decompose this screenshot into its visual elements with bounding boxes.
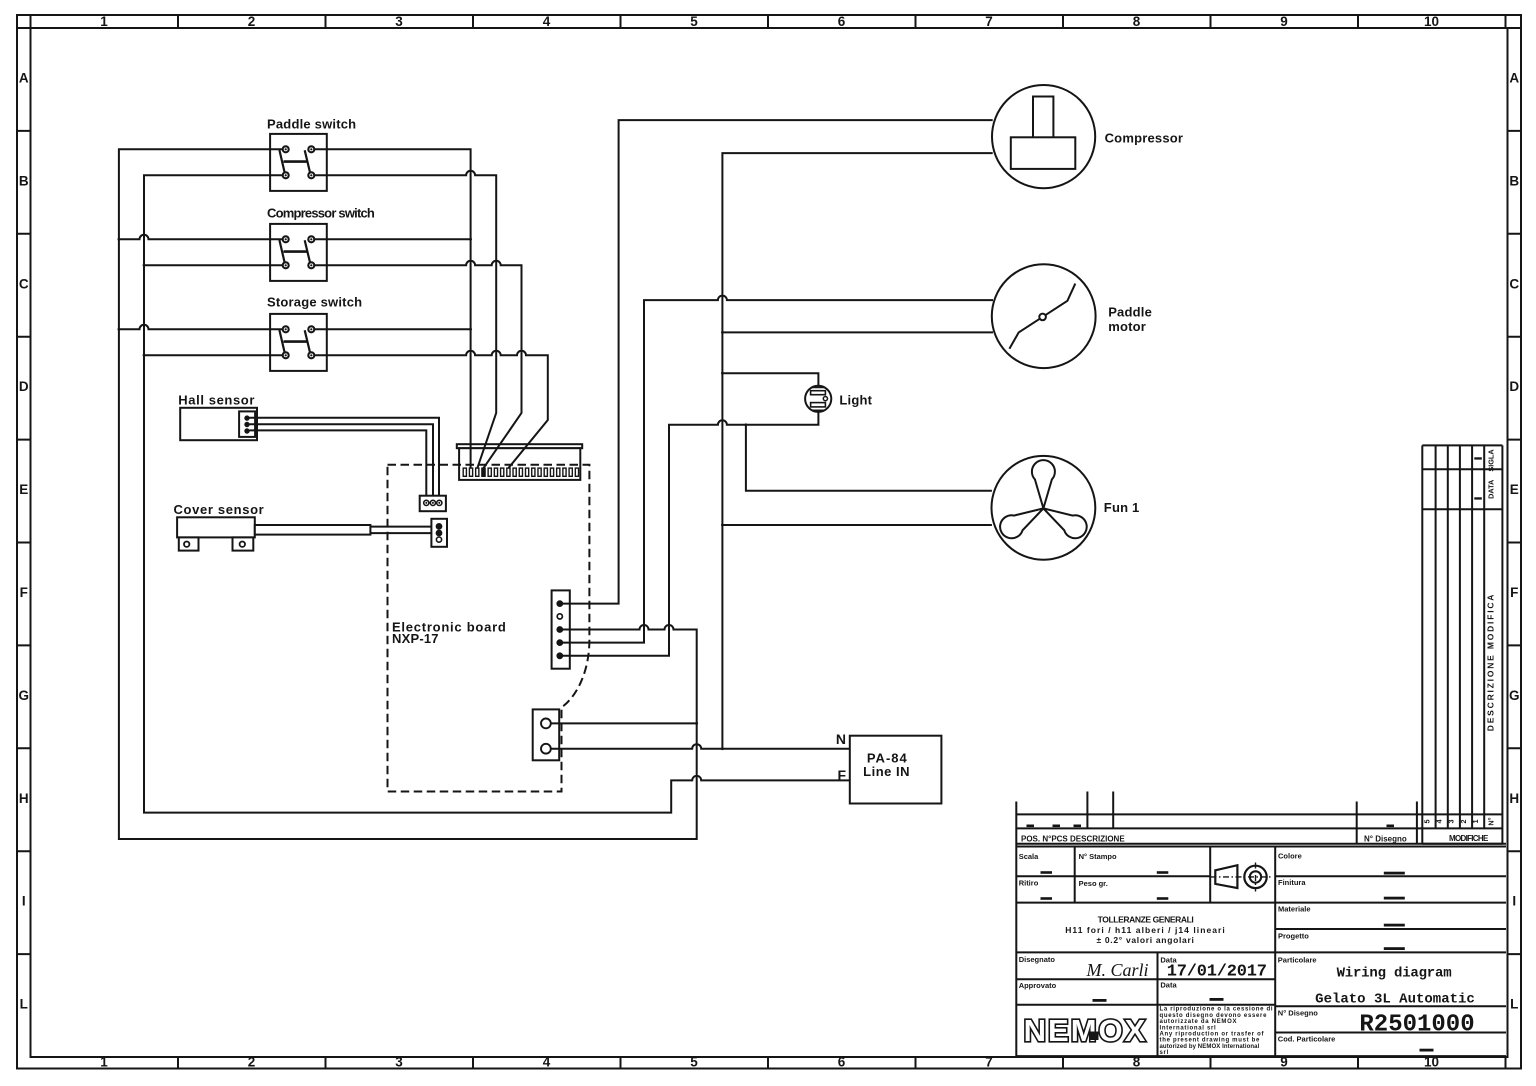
svg-text:H: H	[19, 791, 29, 806]
wire: 2-pin connector top to L bus	[551, 722, 697, 724]
hall sensor B1	[180, 408, 257, 440]
svg-text:MODIFICHE: MODIFICHE	[1449, 834, 1489, 843]
svg-text:Gelato 3L Automatic: Gelato 3L Automatic	[1315, 992, 1475, 1008]
svg-text:Light: Light	[839, 392, 872, 407]
svg-text:9: 9	[1280, 14, 1288, 29]
wire: 6-pin connector pin5 to light bottom	[560, 412, 818, 656]
svg-text:Ritiro: Ritiro	[1019, 879, 1039, 888]
wire: compressor switch top right	[311, 238, 470, 240]
svg-text:17/01/2017: 17/01/2017	[1167, 963, 1267, 982]
wire: paddle switch top right to terminal pin 2	[311, 149, 470, 468]
svg-text:Compressor switch: Compressor switch	[267, 206, 375, 221]
compressor motor M1	[992, 85, 1095, 188]
svg-text:8: 8	[1133, 14, 1141, 29]
svg-text:srl: srl	[1160, 1050, 1169, 1056]
terminal strip X3	[457, 444, 582, 480]
wire: fan top feed	[746, 425, 992, 491]
svg-text:7: 7	[985, 1055, 993, 1070]
svg-text:N° Disegno: N° Disegno	[1364, 834, 1407, 843]
svg-text:M. Carli: M. Carli	[1085, 960, 1148, 980]
wire: fan bottom	[722, 524, 992, 526]
wire: paddle motor bottom	[722, 331, 993, 333]
svg-text:2: 2	[1459, 819, 1468, 823]
svg-text:autorizzate da NEMOX: autorizzate da NEMOX	[1160, 1019, 1238, 1025]
svg-text:I: I	[22, 894, 26, 909]
svg-text:the present drawing must be: the present drawing must be	[1160, 1038, 1261, 1044]
svg-text:D: D	[19, 379, 29, 394]
svg-text:Particolare: Particolare	[1278, 955, 1317, 964]
svg-text:Colore: Colore	[1278, 852, 1302, 861]
svg-text:Cover sensor: Cover sensor	[174, 502, 265, 517]
svg-text:6: 6	[838, 1055, 846, 1070]
svg-text:C: C	[1509, 276, 1519, 291]
svg-text:3: 3	[395, 14, 403, 29]
wire: storage switch bottom right to terminal pin 8	[311, 351, 548, 468]
svg-text:5: 5	[1422, 819, 1431, 823]
fan FUN1	[992, 456, 1096, 560]
svg-text:G: G	[19, 688, 30, 703]
TITLEBLOCK	[1016, 445, 1506, 1056]
svg-text:F: F	[838, 767, 847, 783]
svg-text:4: 4	[543, 14, 551, 29]
light lamp E1	[805, 386, 831, 412]
svg-text:Line IN: Line IN	[863, 764, 910, 779]
wire: net L bus - paddle switch top / compressor top / storage top to board pin row and 6-pin connector pin 3	[119, 149, 697, 839]
svg-text:Approvato: Approvato	[1019, 981, 1057, 990]
svg-text:Wiring diagram: Wiring diagram	[1337, 965, 1452, 981]
svg-text:NXP-17: NXP-17	[392, 631, 439, 646]
svg-text:N° Disegno: N° Disegno	[1278, 1009, 1319, 1018]
terminal strip pins	[463, 468, 578, 476]
wire: storage switch top right	[311, 328, 470, 330]
svg-text:Any riproduction or trasfer of: Any riproduction or trasfer of	[1160, 1032, 1265, 1038]
cover connector X2	[431, 519, 447, 547]
wire: 6-pin connector pin4 to paddle motor top	[560, 296, 993, 643]
wire: compressor switch top left	[119, 235, 286, 239]
svg-text:Hall sensor: Hall sensor	[178, 392, 255, 407]
svg-text:Progetto: Progetto	[1278, 931, 1309, 940]
svg-text:Paddle: Paddle	[1108, 305, 1152, 320]
svg-text:NEMOX: NEMOX	[1024, 1013, 1148, 1048]
svg-text:F: F	[1510, 585, 1518, 600]
svg-text:E: E	[19, 482, 28, 497]
svg-text:3: 3	[1447, 819, 1456, 823]
svg-text:5: 5	[690, 14, 698, 29]
wire: storage switch top left	[119, 325, 286, 330]
svg-text:1: 1	[100, 1055, 108, 1070]
electronic board NXP-17 dashed outline	[388, 465, 590, 792]
svg-text:1: 1	[1471, 819, 1480, 823]
svg-text:N°: N°	[1487, 817, 1496, 825]
wire: light top feed	[722, 373, 818, 386]
wire: hall sensor pin2 to connector X1	[250, 424, 434, 501]
svg-text:B: B	[19, 173, 29, 188]
svg-text:Storage switch: Storage switch	[267, 295, 362, 310]
svg-text:International srl: International srl	[1160, 1025, 1217, 1031]
wire: net N bus - paddle switch bottom to F terminal of PA-84	[144, 175, 850, 812]
svg-text:B: B	[1509, 173, 1519, 188]
wire: cover sensor leads to connector X2	[370, 527, 436, 534]
storage switch S3	[270, 314, 327, 371]
PA-84 line in module	[850, 736, 942, 804]
wire: 6-pin connector pin1 to compressor motor top	[560, 120, 993, 603]
svg-text:Peso gr.: Peso gr.	[1079, 879, 1108, 888]
svg-text:1: 1	[100, 14, 108, 29]
svg-text:H: H	[1509, 791, 1519, 806]
svg-text:Paddle switch: Paddle switch	[267, 117, 356, 132]
svg-text:5: 5	[690, 1055, 698, 1070]
svg-text:Fun 1: Fun 1	[1104, 500, 1140, 515]
paddle switch S1	[270, 134, 327, 191]
svg-text:Materiale: Materiale	[1278, 904, 1311, 913]
svg-text:Data: Data	[1160, 981, 1177, 990]
svg-text:G: G	[1509, 688, 1520, 703]
wire: storage switch bottom left	[144, 354, 286, 356]
svg-text:La riproduzione o la cessione: La riproduzione o la cessione di	[1160, 1007, 1274, 1013]
svg-text:H11 fori / h11 alberi / j14 li: H11 fori / h11 alberi / j14 lineari	[1065, 925, 1226, 935]
paddle motor M2	[992, 264, 1096, 368]
svg-text:6: 6	[838, 14, 846, 29]
svg-text:Finitura: Finitura	[1278, 878, 1306, 887]
svg-text:C: C	[19, 276, 29, 291]
svg-text:POS. N°PCS DESCRIZIONE: POS. N°PCS DESCRIZIONE	[1021, 834, 1125, 843]
svg-text:DESCRIZIONE MODIFICA: DESCRIZIONE MODIFICA	[1486, 593, 1496, 731]
svg-text:L: L	[1510, 997, 1518, 1012]
compressor switch S2	[270, 224, 327, 281]
svg-text:questo disegno devono essere: questo disegno devono essere	[1160, 1013, 1268, 1019]
svg-text:N: N	[836, 731, 846, 747]
wire: compressor switch bottom right to terminal pin 4	[311, 261, 521, 468]
svg-text:E: E	[1510, 482, 1519, 497]
junction dots	[118, 238, 748, 750]
svg-text:TOLLERANZE GENERALI: TOLLERANZE GENERALI	[1098, 915, 1194, 925]
svg-text:A: A	[1509, 71, 1519, 86]
wire: paddle switch bottom right to terminal pin 3	[311, 171, 496, 468]
cover sensor B2	[177, 517, 370, 550]
svg-text:N° Stampo: N° Stampo	[1079, 852, 1117, 861]
svg-text:4: 4	[543, 1055, 551, 1070]
svg-text:A: A	[19, 71, 29, 86]
svg-text:motor: motor	[1108, 319, 1146, 334]
svg-text:10: 10	[1424, 14, 1439, 29]
2-pin board connector X5	[533, 709, 560, 760]
svg-text:± 0.2° valori angolari: ± 0.2° valori angolari	[1096, 935, 1194, 945]
svg-text:I: I	[1512, 894, 1516, 909]
svg-text:Scala: Scala	[1019, 852, 1039, 861]
hall connector X1	[420, 496, 446, 512]
wire: hall sensor pin1 to connector X1	[250, 418, 440, 501]
wire: compressor switch bottom left	[144, 264, 286, 266]
6-pin board connector X4	[552, 590, 570, 668]
svg-text:3: 3	[395, 1055, 403, 1070]
svg-text:7: 7	[985, 14, 993, 29]
svg-text:D: D	[1509, 379, 1519, 394]
svg-text:R2501000: R2501000	[1359, 1011, 1474, 1038]
svg-text:DATA: DATA	[1487, 479, 1496, 499]
svg-text:Compressor: Compressor	[1105, 131, 1184, 146]
wire: compressor motor bottom to N line	[722, 153, 992, 749]
svg-text:Cod. Particolare: Cod. Particolare	[1278, 1035, 1336, 1044]
svg-text:L: L	[20, 997, 28, 1012]
wire: 2-pin connector bottom to N terminal of PA-84	[551, 744, 850, 749]
svg-text:2: 2	[248, 1055, 256, 1070]
svg-text:Disegnato: Disegnato	[1019, 955, 1056, 964]
svg-text:2: 2	[248, 14, 256, 29]
svg-text:F: F	[20, 585, 28, 600]
wire: hall sensor pin3 to connector X1	[250, 430, 427, 500]
svg-text:autorized by NEMOX Internation: autorized by NEMOX International	[1160, 1044, 1260, 1050]
svg-text:SIGLA: SIGLA	[1487, 449, 1496, 472]
